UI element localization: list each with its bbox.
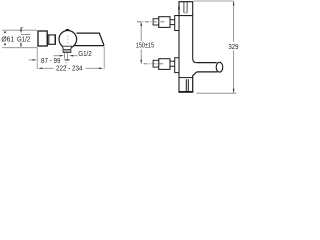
svg-text:Ø61: Ø61 xyxy=(1,37,14,44)
G1/2 outlet dimension line xyxy=(54,55,61,57)
outlet below handle xyxy=(62,46,71,52)
bottom centre dash-dot xyxy=(144,63,165,65)
dim 150±15 xyxy=(140,22,142,41)
dim G1/2 stroke bottom xyxy=(20,43,22,45)
dim 329 extension top xyxy=(194,0,234,2)
body top cap xyxy=(178,1,193,3)
outlet range extension lines xyxy=(64,53,66,58)
extension line top tangent xyxy=(2,29,37,31)
svg-text:G1/2: G1/2 xyxy=(78,51,92,58)
dim 329 xyxy=(233,1,235,41)
spout tip extension line xyxy=(103,47,105,69)
bottom stub xyxy=(179,77,193,79)
dim 222-234 xyxy=(38,68,43,70)
handle circle xyxy=(59,31,77,49)
handle centre mark xyxy=(67,36,69,44)
body right edge upper xyxy=(193,2,197,63)
bottom union boss xyxy=(175,58,179,73)
top escutcheon xyxy=(159,17,170,28)
dim G1/2 stroke top xyxy=(20,27,22,30)
dim 329 extension bottom xyxy=(197,92,237,94)
tab on left edge xyxy=(178,7,180,10)
body column left edge xyxy=(178,2,180,93)
top union nut xyxy=(153,19,159,25)
dim Ø61 tick bottom xyxy=(4,44,6,46)
spout cylinder xyxy=(196,62,217,64)
bottom escutcheon xyxy=(159,59,170,70)
top union boss xyxy=(175,16,179,31)
bottom union nut xyxy=(153,60,159,67)
handle lever nub xyxy=(65,29,71,31)
svg-text:87 - 99: 87 - 99 xyxy=(41,58,61,65)
svg-text:150±15: 150±15 xyxy=(136,43,154,50)
union nut xyxy=(48,35,56,44)
top neck xyxy=(170,19,175,21)
svg-text:G1/2: G1/2 xyxy=(17,37,30,44)
dim 87-99 xyxy=(29,59,33,61)
outlet centre dash-dot xyxy=(65,62,67,66)
inner top stub xyxy=(183,2,185,13)
top centre dash-dot xyxy=(137,21,165,23)
spout profile xyxy=(77,33,105,45)
svg-text:329: 329 xyxy=(228,44,238,51)
wall block xyxy=(38,31,47,46)
spout-stub transition xyxy=(193,72,197,92)
wall extension line xyxy=(36,47,38,69)
G1/2 overline xyxy=(21,34,31,36)
dim Ø61 tick top xyxy=(4,31,6,33)
shoulder line xyxy=(175,15,193,17)
bottom neck xyxy=(170,60,175,62)
extension line bottom tangent xyxy=(2,47,37,49)
svg-text:222 - 234: 222 - 234 xyxy=(56,66,83,73)
